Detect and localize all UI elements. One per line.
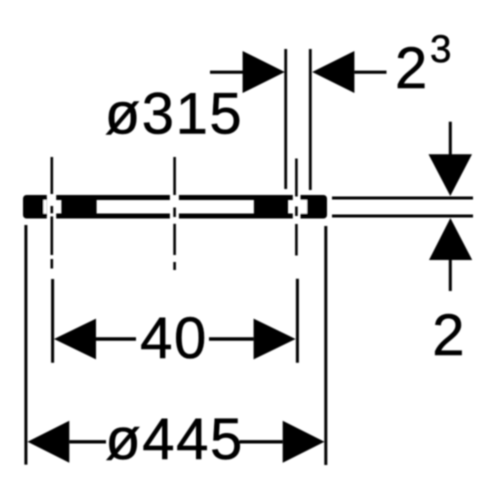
- extension line ø445 left: [24, 225, 27, 465]
- svg-text:3: 3: [430, 28, 451, 71]
- extension line 40 left: [51, 279, 54, 363]
- flange top edge line: [332, 197, 473, 200]
- arrow 40 right: [254, 319, 296, 360]
- dimension line ø445 right segment: [240, 440, 283, 443]
- dimension line ø445 left segment: [69, 440, 106, 443]
- centerline right joint: [295, 159, 298, 256]
- arrow ø315: [243, 51, 285, 93]
- plate solid section left: [61, 200, 96, 214]
- arrow ø445 right: [283, 421, 325, 463]
- arrow ø445 left: [28, 421, 70, 463]
- extension line ø445 right: [324, 226, 327, 465]
- svg-text:ø445: ø445: [105, 407, 244, 472]
- dimension line 2-3 tail: [354, 71, 386, 74]
- svg-text:40: 40: [140, 306, 208, 371]
- flange bottom edge line: [332, 215, 473, 218]
- dimension line 40 right segment: [209, 337, 254, 340]
- arrow 2 up: [429, 218, 472, 260]
- svg-text:2: 2: [432, 303, 464, 368]
- plate cross-section top wall: [56, 195, 293, 200]
- extension line pipe wall right: [309, 49, 312, 190]
- plate cross-section left rim block: [23, 195, 47, 219]
- centerline left joint: [50, 157, 53, 269]
- extension line 40 right: [296, 279, 299, 363]
- plate cross-section right rim block: [301, 195, 328, 219]
- arrow 40 left: [54, 319, 96, 360]
- svg-text:2: 2: [395, 36, 427, 101]
- dimension line ø315 tail: [210, 71, 243, 74]
- dimension line 40 left segment: [96, 337, 136, 340]
- centerline middle: [173, 157, 176, 270]
- svg-text:ø315: ø315: [105, 81, 244, 146]
- plate solid section right: [254, 200, 288, 214]
- extension line pipe wall left: [284, 49, 287, 189]
- plate cross-section bottom wall: [56, 214, 293, 219]
- arrow 2-3: [312, 51, 354, 93]
- arrow 2 down: [429, 154, 473, 196]
- dimension vertical line 2 lower: [449, 260, 452, 292]
- dimension vertical line 2 upper: [449, 122, 452, 155]
